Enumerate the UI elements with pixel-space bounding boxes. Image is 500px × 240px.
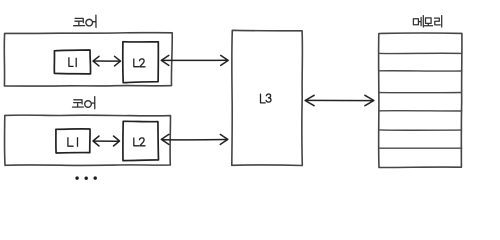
wire: core 1 L1-L2 double arrow (93, 56, 121, 66)
core 2 label 코어 (73, 97, 95, 109)
memory row line 3 (380, 92, 462, 94)
memory label 메모리 (413, 16, 441, 27)
core 1 L1 cache box (54, 50, 90, 74)
memory row line 6 (380, 147, 462, 149)
wire: core 2 L2-L3 double arrow (161, 134, 228, 144)
ellipsis dots (75, 176, 97, 179)
memory row line 2 (379, 70, 461, 72)
core 2 box (4, 115, 170, 165)
L3 cache box (232, 30, 303, 165)
core 1 label 코어 (74, 15, 96, 27)
memory row line 5 (380, 129, 462, 131)
core 1 L2 label (134, 59, 145, 67)
wire: core 2 L1-L2 double arrow (93, 136, 120, 146)
core 2 L2 cache box (123, 121, 159, 160)
memory row line 1 (380, 52, 462, 54)
wire: L3-memory double arrow (305, 95, 374, 105)
core 2 L1 cache box (56, 129, 90, 153)
core 1 box (4, 33, 172, 86)
core 2 L2 label (134, 138, 145, 146)
core 2 L1 label (68, 138, 78, 146)
L3 label (261, 94, 272, 103)
core 1 L2 cache box (123, 42, 159, 83)
memory row line 4 (379, 110, 461, 112)
core 1 L1 label (69, 58, 76, 67)
wire: core 1 L2-L3 double arrow (161, 55, 228, 65)
memory box (379, 33, 462, 168)
